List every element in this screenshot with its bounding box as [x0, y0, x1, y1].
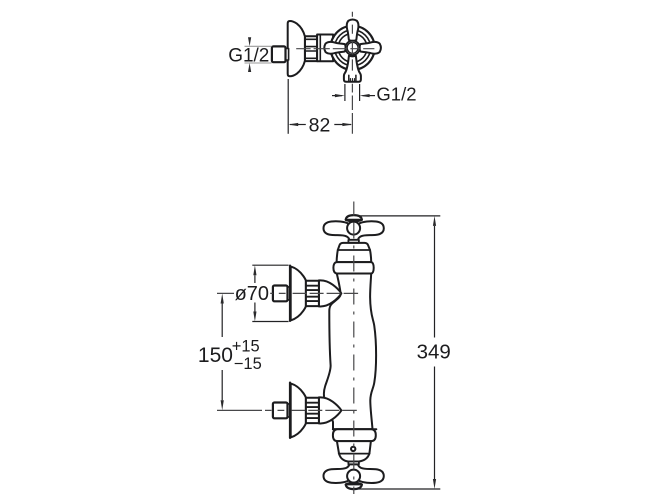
svg-text:82: 82	[309, 115, 331, 137]
svg-text:+15: +15	[232, 338, 260, 356]
svg-text:ø70: ø70	[235, 283, 269, 305]
svg-text:150: 150	[198, 344, 233, 367]
svg-text:−15: −15	[234, 355, 262, 373]
svg-text:G1/2: G1/2	[376, 84, 416, 105]
svg-text:G1/2: G1/2	[228, 45, 269, 66]
svg-text:349: 349	[417, 340, 451, 363]
